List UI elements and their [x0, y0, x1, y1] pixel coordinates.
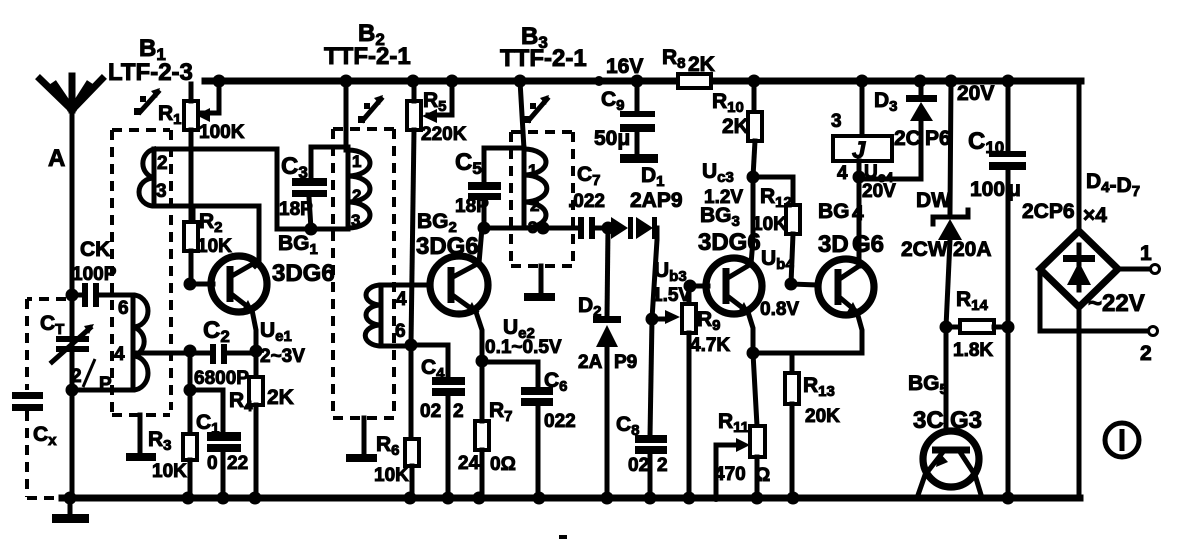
svg-text:22: 22 — [227, 453, 248, 474]
svg-text:4: 4 — [114, 344, 125, 365]
diode D3 — [859, 81, 951, 179]
capacitor CT trimmer — [40, 312, 112, 395]
svg-text:2: 2 — [352, 186, 361, 205]
wire B1 primary bottom (tap3) to BG1 collector — [154, 206, 259, 266]
wire base to BG1 — [190, 282, 213, 287]
svg-text:3: 3 — [351, 211, 360, 230]
svg-text:2: 2 — [453, 401, 464, 422]
svg-text:CK: CK — [80, 238, 110, 261]
transformer B1 shield box (dashed) — [112, 130, 171, 415]
capacitor C3 — [279, 147, 327, 229]
capacitor C9 — [594, 81, 658, 163]
junction dot BG2 emitter node — [476, 355, 489, 368]
inductor B2 primary (taps 1,2,3) — [348, 150, 370, 230]
resistor R1 with pot arrow — [158, 81, 245, 143]
antenna A — [40, 76, 102, 498]
capacitor C2 — [194, 317, 256, 389]
transistor BG2 — [430, 256, 488, 314]
wire BG3 emitter down — [748, 312, 753, 353]
zener DW — [901, 81, 992, 327]
svg-text:0: 0 — [207, 453, 218, 474]
svg-text:18P: 18P — [279, 199, 313, 220]
svg-text:3: 3 — [831, 111, 842, 132]
svg-text:6800P: 6800P — [194, 368, 249, 389]
resistor R5 with pot arrow — [407, 81, 467, 145]
node 16V label — [606, 55, 643, 78]
transistor BG5 — [917, 327, 982, 498]
svg-text:6: 6 — [118, 298, 129, 319]
capacitor C6 — [482, 362, 576, 498]
capacitor Cx (dashed branch) — [12, 299, 66, 497]
svg-text:10K: 10K — [152, 461, 187, 482]
resistor R12 — [752, 177, 800, 284]
wire B1 primary top (tap2) to C3 node — [154, 149, 348, 229]
svg-text:2: 2 — [157, 153, 168, 174]
transformer B2 tuning arrow — [358, 95, 383, 123]
junction dot C10/R14 — [1002, 321, 1015, 334]
wire rail to B2 primary top — [344, 81, 349, 150]
junction dot emitter node — [250, 345, 263, 358]
svg-text:P6: P6 — [925, 127, 951, 150]
svg-text:1: 1 — [528, 161, 537, 180]
label 20V rail — [957, 82, 994, 105]
svg-text:02: 02 — [628, 455, 649, 476]
svg-text:LTF-2-3: LTF-2-3 — [108, 59, 193, 86]
svg-text:20V: 20V — [957, 82, 994, 105]
transformer B2 title — [324, 20, 411, 70]
capacitor C4 — [411, 345, 465, 498]
bridge rectifier D4-D7 — [1022, 81, 1140, 498]
svg-text:P9: P9 — [614, 352, 637, 373]
wire B2 sec bottom to node — [381, 344, 411, 346]
svg-text:2K: 2K — [267, 386, 294, 409]
label 0.8V — [760, 299, 799, 320]
diode D1 (double symbol) — [611, 164, 683, 239]
mark bottom center — [559, 535, 567, 539]
svg-text:4: 4 — [396, 289, 407, 310]
svg-text:.022: .022 — [568, 191, 605, 212]
ground B2 shield — [346, 418, 377, 462]
transformer B3 title — [500, 23, 587, 72]
transformer B3 tuning arrow — [524, 95, 549, 123]
resistor R4 — [229, 351, 294, 498]
junction dot R14 node — [940, 321, 953, 334]
junction dot BG1 base — [184, 278, 197, 291]
inductor B1 primary (taps 2,3) — [139, 149, 168, 206]
junction dot coil bottom — [66, 384, 79, 397]
wire BG3 collector up — [751, 177, 753, 264]
svg-text:2: 2 — [71, 366, 82, 387]
capacitor C8 — [616, 319, 668, 498]
label BG2 — [416, 210, 479, 260]
terminal 1 — [1118, 242, 1160, 274]
wire rail to B3 coil top — [520, 81, 524, 149]
wire C3 top to B2 coil top — [311, 145, 348, 150]
svg-text:2CP6: 2CP6 — [1022, 200, 1075, 223]
svg-text:2~3V: 2~3V — [260, 346, 305, 367]
svg-text:022: 022 — [544, 411, 576, 432]
label ~22V — [1088, 290, 1145, 317]
svg-text:TTF-2-1: TTF-2-1 — [324, 43, 411, 70]
resistor R6 — [374, 345, 419, 498]
svg-text:μ: μ — [1008, 178, 1021, 201]
ground B1 inner (dashed stub) — [0, 0, 1, 1]
svg-text:BG: BG — [818, 200, 850, 223]
terminal 2 — [1040, 269, 1158, 365]
junction dot emitter bus — [747, 347, 760, 360]
svg-text:50μ: 50μ — [594, 127, 630, 150]
svg-text:~22V: ~22V — [1088, 290, 1145, 317]
svg-text:10K: 10K — [197, 236, 232, 257]
svg-text:220K: 220K — [421, 124, 467, 145]
svg-text:2CW: 2CW — [901, 238, 948, 261]
meter indicator — [1105, 423, 1139, 457]
junction dot BG2 collector node — [478, 222, 491, 235]
svg-text:2K: 2K — [722, 115, 749, 138]
svg-text:02: 02 — [420, 401, 441, 422]
resistor R13 — [785, 353, 840, 498]
resistor R9 — [682, 286, 730, 498]
svg-text:A: A — [48, 145, 65, 172]
svg-text:×4: ×4 — [1083, 204, 1107, 227]
svg-text:470: 470 — [714, 464, 746, 485]
resistor R11 with pot arrow — [714, 353, 770, 498]
wire BG1 emitter down — [252, 310, 256, 351]
transformer B1 title — [108, 35, 193, 86]
svg-text:100P: 100P — [72, 264, 117, 285]
resistor R14 — [946, 288, 1008, 361]
wire AGC arrow to R9 — [652, 310, 680, 324]
label Uc4 — [862, 162, 896, 202]
svg-text:2: 2 — [530, 196, 539, 215]
wire base to BG3 — [690, 284, 708, 289]
wire B2 sec top to BG2 base — [381, 283, 431, 288]
svg-text:0Ω: 0Ω — [490, 454, 516, 475]
junction dot relay node — [853, 171, 866, 184]
svg-text:Ω: Ω — [755, 465, 770, 486]
svg-text:1.2V: 1.2V — [704, 187, 743, 208]
wire BG4 emitter down — [857, 312, 862, 353]
svg-text:TTF-2-1: TTF-2-1 — [500, 45, 587, 72]
svg-text:100: 100 — [970, 178, 1005, 201]
svg-text:4: 4 — [837, 163, 848, 184]
wire bottom ground rail — [27, 496, 1080, 500]
transformer B1 tuning arrow — [134, 88, 160, 115]
svg-text:P: P — [99, 374, 112, 395]
label Uc3 — [702, 160, 743, 208]
inductor B3 primary (taps 1,2,3) — [524, 149, 547, 237]
resistor R8 body — [678, 74, 711, 88]
svg-text:0.8V: 0.8V — [760, 299, 799, 320]
transformer B2 shield box (dashed) — [333, 129, 394, 418]
svg-text:18P: 18P — [455, 196, 489, 217]
ground B3 shield — [524, 266, 555, 301]
junction dot antenna/CK — [66, 289, 79, 302]
svg-text:100K: 100K — [199, 122, 245, 143]
junction dot C7/D1/D2 node — [602, 222, 615, 235]
svg-text:DW: DW — [916, 189, 951, 212]
label BG4 — [818, 200, 884, 258]
svg-text:20A: 20A — [953, 238, 992, 261]
svg-text:2A: 2A — [578, 352, 603, 373]
svg-text:6: 6 — [395, 321, 406, 342]
capacitor C1 — [184, 384, 249, 499]
junction dot divider node — [405, 339, 418, 352]
node A label — [48, 145, 65, 172]
svg-text:3DG6: 3DG6 — [272, 260, 335, 287]
wire D1 out down to AGC node — [652, 228, 657, 319]
svg-text:1: 1 — [1140, 242, 1152, 265]
svg-text:3DG6: 3DG6 — [416, 233, 479, 260]
capacitor C5 — [455, 148, 524, 228]
resistor R8 label — [662, 46, 715, 76]
wire emitter bus — [753, 351, 862, 356]
junction dot C3 bottom — [305, 223, 318, 236]
junction dot tap4 line at base chain — [184, 345, 197, 358]
junction dot BG4 base — [785, 278, 798, 291]
label BG5 — [908, 372, 982, 434]
label Ue1 — [260, 319, 305, 367]
svg-text:1: 1 — [352, 152, 361, 171]
svg-text:20K: 20K — [805, 406, 840, 427]
inductor B1 secondary (taps 6,4) — [72, 295, 148, 390]
transistor BG3 — [706, 258, 762, 314]
label Ub4 — [761, 247, 794, 273]
svg-text:2: 2 — [1140, 342, 1152, 365]
resistor R10 — [712, 81, 762, 177]
svg-text:20V: 20V — [862, 181, 896, 202]
diode D2 — [578, 228, 637, 498]
junction dots on bottom rail — [64, 492, 1015, 505]
wire base to BG4 — [791, 284, 818, 285]
svg-text:24: 24 — [458, 453, 480, 474]
svg-text:1.5V: 1.5V — [652, 285, 691, 306]
ground main symbol — [52, 500, 89, 523]
relay J — [831, 81, 892, 184]
svg-text:10K: 10K — [374, 465, 409, 486]
inductor B2 secondary (taps 4,6) — [365, 285, 407, 346]
label BG3 — [698, 204, 761, 256]
svg-text:2C: 2C — [894, 127, 921, 150]
svg-text:2: 2 — [657, 455, 668, 476]
junction dot AGC node — [646, 313, 659, 326]
junction dot B3 tap3 — [537, 222, 550, 235]
svg-text:3: 3 — [156, 181, 167, 202]
capacitor C7 — [568, 163, 608, 239]
wire tap4 to C2 — [133, 351, 210, 356]
label BG1 — [272, 232, 335, 287]
wire BG2 emitter down — [476, 312, 482, 361]
capacitor C10 — [968, 81, 1026, 498]
transistor BG4 — [818, 259, 874, 315]
wire BG2 collector up — [479, 228, 482, 263]
wire R1 bottom to base chain — [189, 130, 194, 284]
label Ue2 — [485, 316, 562, 358]
resistor R2 — [184, 206, 232, 284]
wire collector node to B3 tap3 and C7 — [484, 226, 578, 231]
svg-text:3D: 3D — [818, 231, 849, 258]
svg-text:1.8K: 1.8K — [953, 340, 993, 361]
wire R5 bottom to divider node — [411, 130, 414, 344]
resistor R3 — [148, 351, 197, 498]
label Ub3 — [652, 259, 691, 306]
transformer B3 shield box (dashed) — [511, 132, 573, 266]
wire top supply rail — [205, 78, 1081, 85]
wire BG4 collector up — [857, 177, 862, 266]
junction dots on top rail — [213, 75, 1015, 88]
svg-text:10K: 10K — [752, 214, 787, 235]
ground B1 shield — [126, 415, 156, 461]
svg-text:2AP9: 2AP9 — [630, 189, 683, 212]
resistor R7 — [458, 361, 516, 498]
junction dot BG3 base — [684, 280, 697, 293]
svg-text:0.1~0.5V: 0.1~0.5V — [485, 337, 562, 358]
capacitor CK — [72, 238, 133, 307]
transistor BG1 — [211, 256, 267, 312]
svg-text:2K: 2K — [688, 53, 715, 76]
svg-text:4.7K: 4.7K — [690, 335, 730, 356]
junction dot R10/R12 node — [747, 171, 760, 184]
